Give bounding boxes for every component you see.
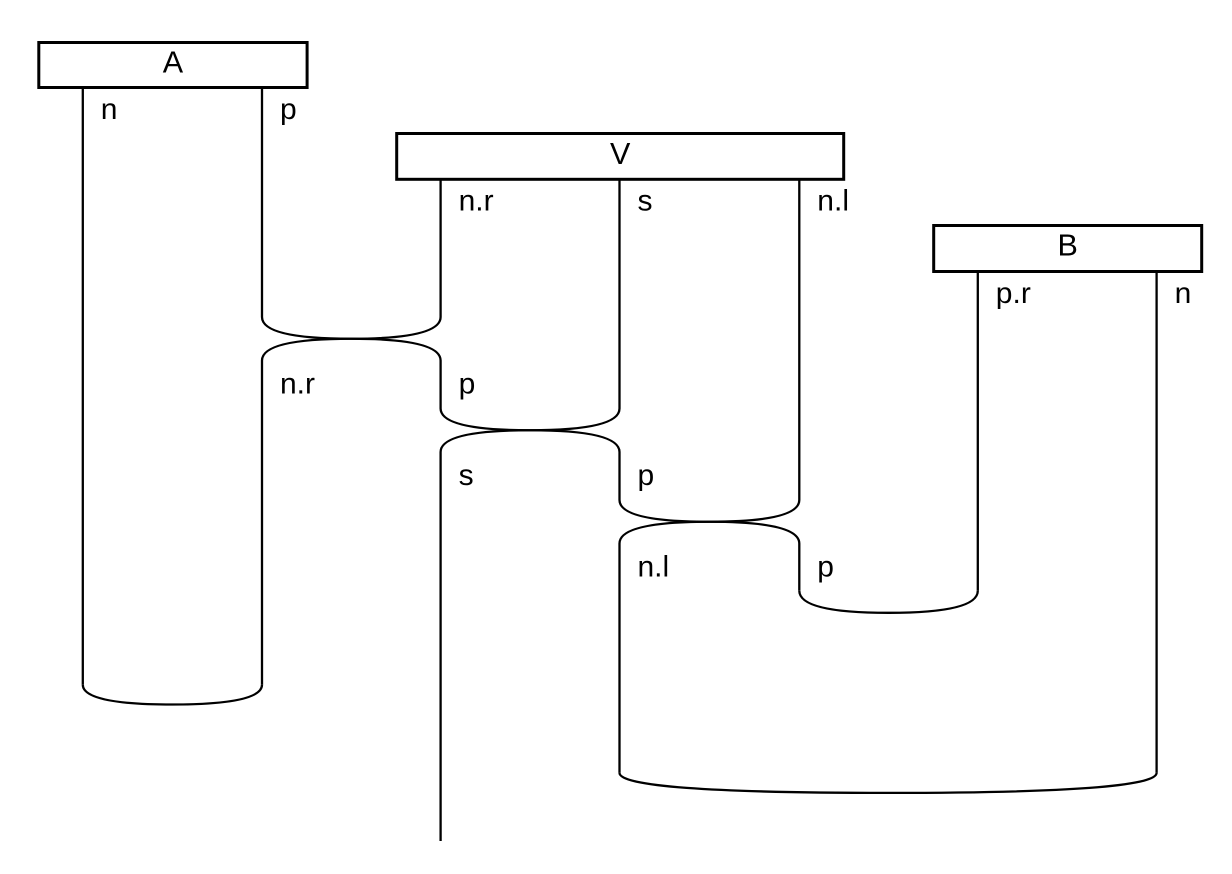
svg-text:A: A (163, 46, 184, 80)
wire B.p.r (977, 272, 979, 591)
wire V.s (618, 179, 620, 408)
box V (397, 134, 844, 180)
wire p after swap 2 (618, 452, 620, 500)
box A (39, 43, 307, 88)
wire n.r after swap 1 (261, 361, 263, 685)
svg-text:s: s (638, 185, 653, 218)
swap 2 (p x s) left-to-right strand (441, 409, 620, 453)
svg-text:p.r: p.r (996, 277, 1031, 310)
svg-text:s: s (459, 459, 474, 492)
cup p - p.r (799, 591, 978, 613)
swap 3 (p x n.l) left-to-right strand (620, 500, 800, 544)
wire V.n.l (798, 179, 800, 500)
svg-text:n: n (1175, 277, 1192, 310)
wire n.l after swap 3 (618, 544, 620, 773)
wire s after swap 2 (439, 452, 441, 841)
swap 3 (p x n.l) right-to-left strand (620, 500, 800, 544)
svg-text:n: n (101, 93, 118, 126)
wire V.n.r (439, 179, 441, 317)
wire A.p (261, 88, 263, 318)
cup n.l - B.n (620, 773, 1157, 793)
svg-text:n.l: n.l (817, 185, 849, 218)
wire p after swap 3 (798, 544, 800, 591)
wire A.n (82, 88, 84, 685)
wire B.n (1155, 272, 1157, 773)
svg-text:p: p (638, 459, 655, 492)
svg-text:n.r: n.r (459, 185, 494, 218)
svg-text:n.l: n.l (638, 551, 670, 584)
svg-text:p: p (817, 551, 834, 584)
svg-text:p: p (280, 93, 297, 126)
swap 1 (p x n.r) right-to-left strand (262, 317, 441, 361)
svg-text:B: B (1058, 229, 1078, 263)
svg-text:n.r: n.r (280, 368, 315, 401)
svg-text:p: p (459, 368, 476, 401)
cup n - n.r (83, 685, 262, 705)
box B (934, 226, 1202, 272)
swap 1 (p x n.r) left-to-right strand (262, 317, 441, 361)
wire p after swap 1 (439, 361, 441, 409)
swap 2 (p x s) right-to-left strand (441, 409, 620, 453)
svg-text:V: V (610, 137, 631, 171)
